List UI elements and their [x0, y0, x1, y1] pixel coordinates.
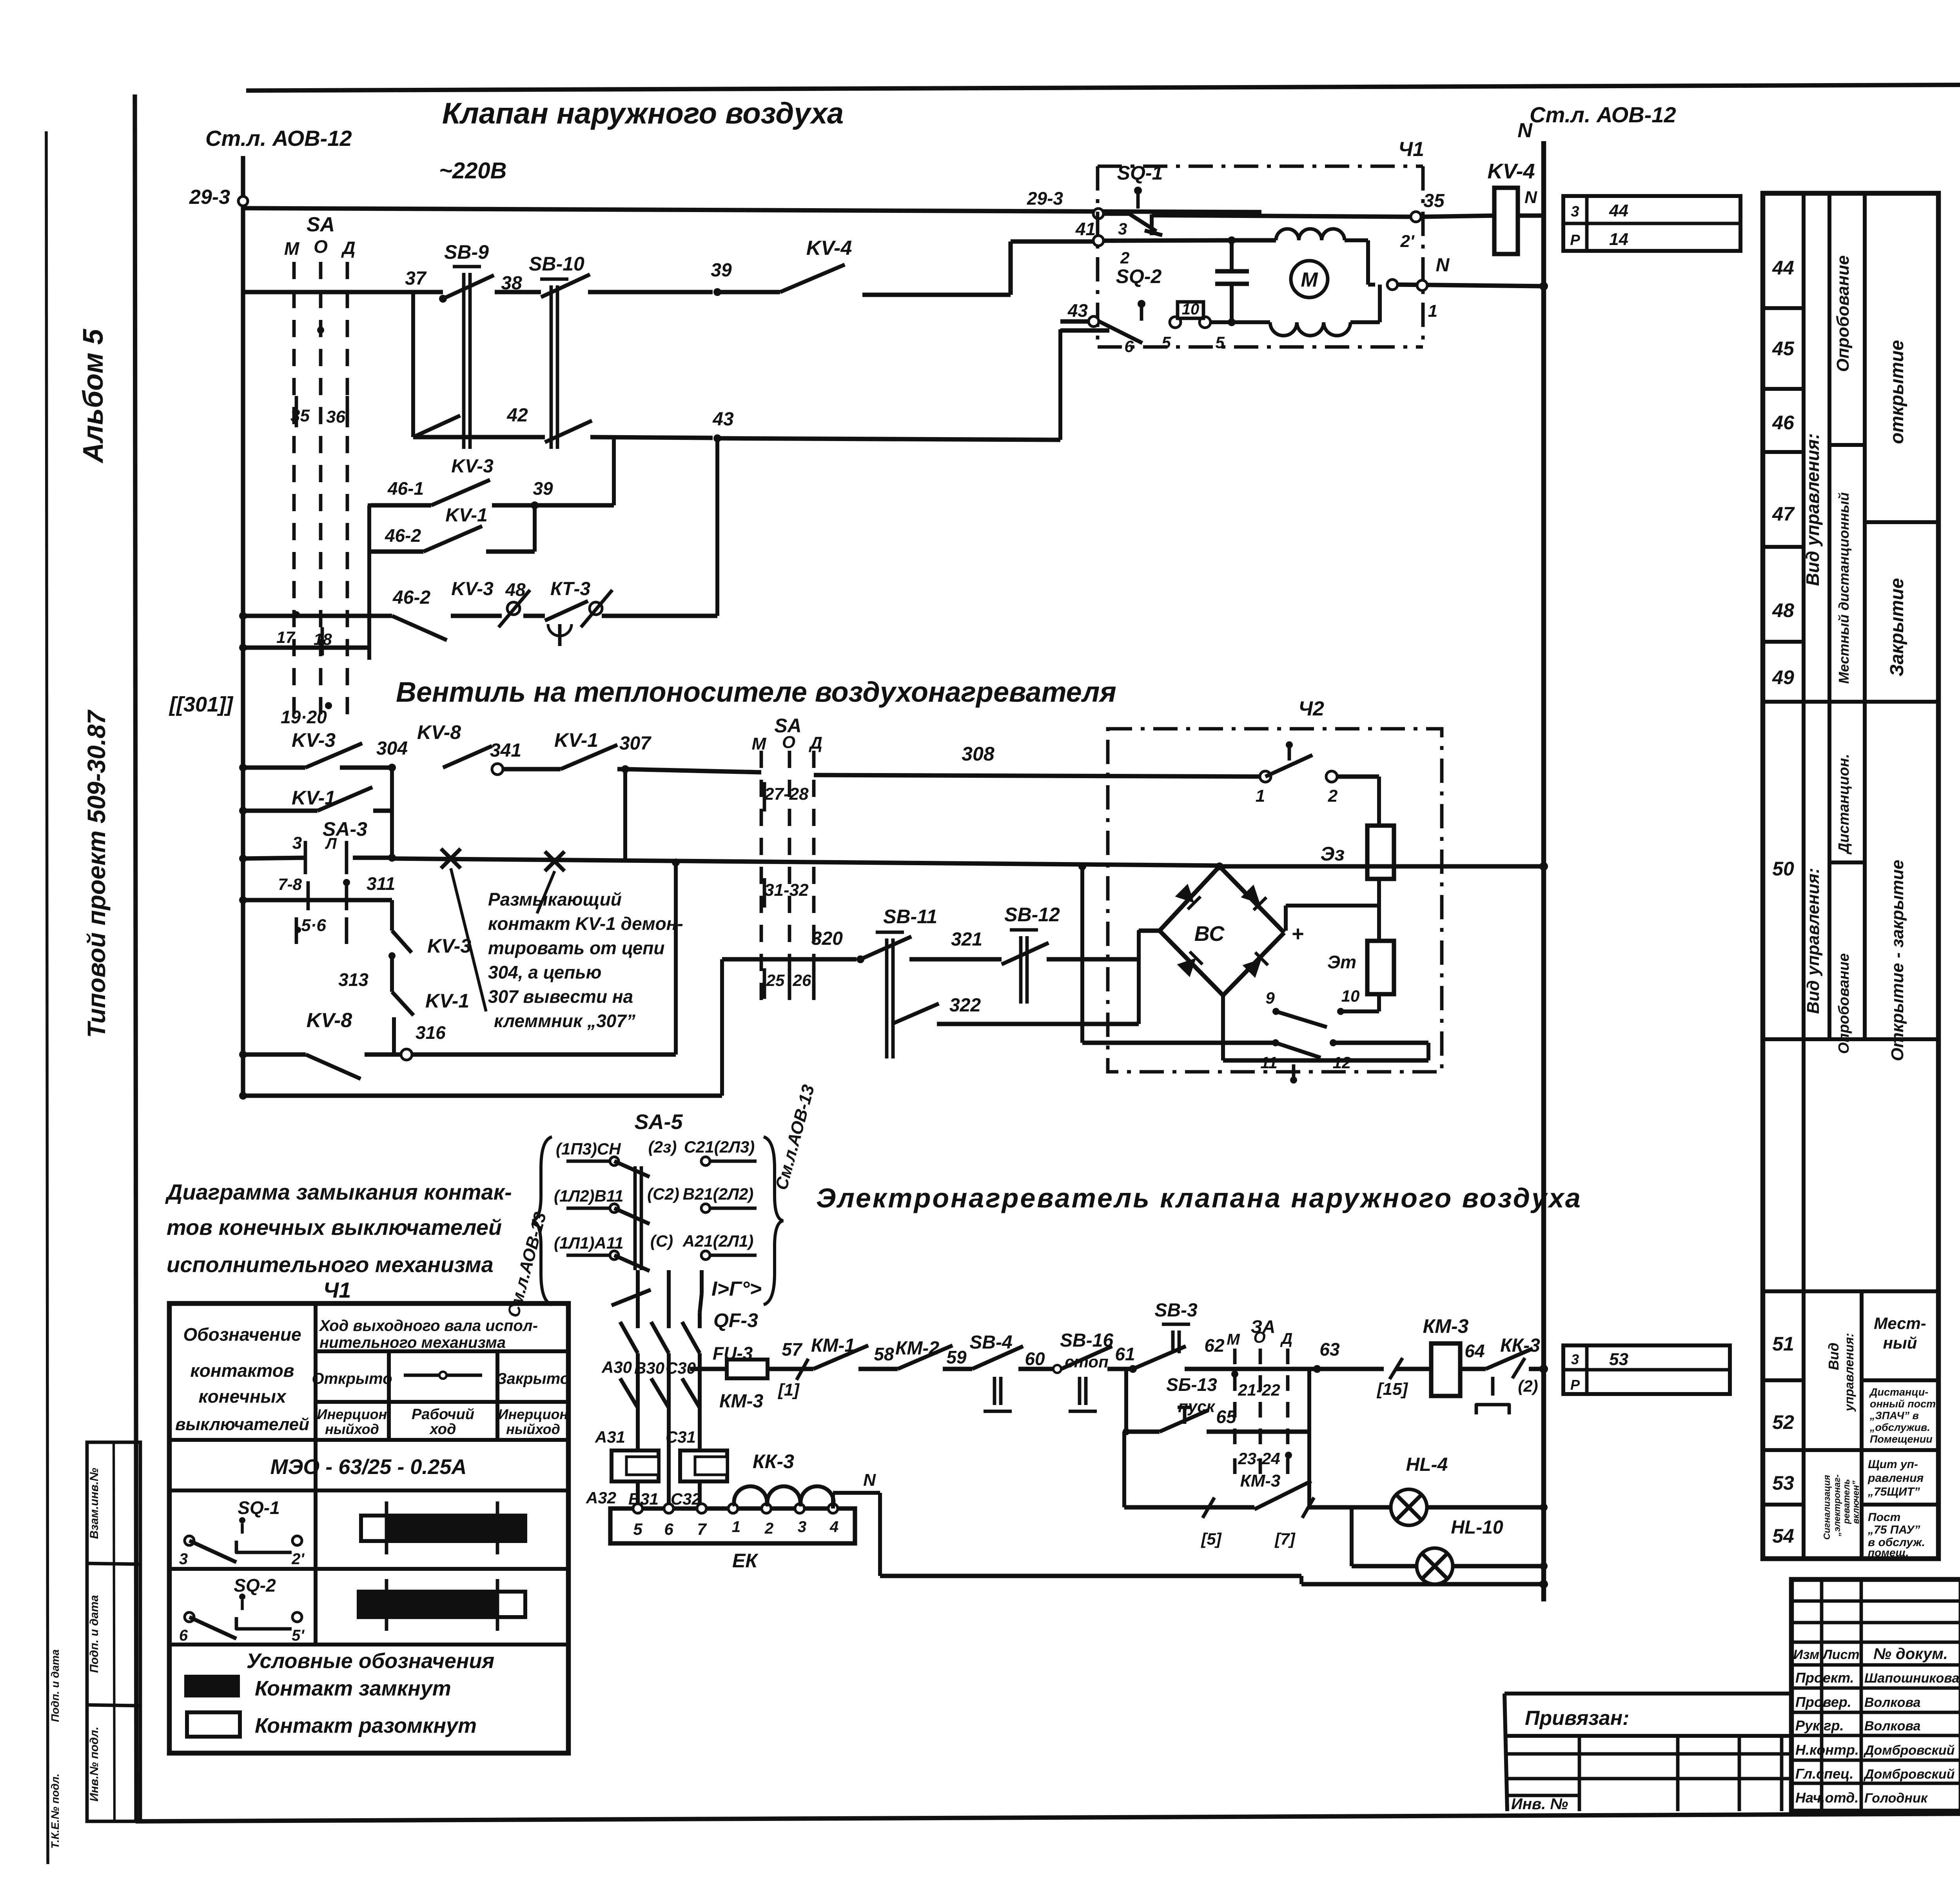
- selector switch SA dashed column lines: [292, 262, 296, 717]
- svg-text:25: 25: [766, 971, 785, 989]
- svg-text:2: 2: [1328, 786, 1338, 806]
- svg-text:321: 321: [951, 929, 982, 950]
- svg-text:313: 313: [338, 969, 368, 990]
- svg-text:А30: А30: [601, 1358, 632, 1376]
- svg-text:Нач.отд.: Нач.отд.: [1795, 1790, 1858, 1806]
- wire KV-8 316 line: [239, 1051, 247, 1058]
- svg-text:SB-12: SB-12: [1004, 904, 1060, 926]
- svg-text:3: 3: [1118, 220, 1127, 238]
- svg-text:42: 42: [506, 405, 528, 426]
- left return riser in Ch2: [1080, 866, 1084, 1043]
- svg-text:44: 44: [1609, 201, 1628, 220]
- wire 43 into Ch1: [1060, 319, 1089, 323]
- svg-text:39: 39: [533, 478, 553, 499]
- svg-text:5: 5: [1161, 333, 1171, 352]
- junction to Et: [1286, 904, 1379, 908]
- wire 17-18 stub: [243, 645, 368, 650]
- bridge bottom return: [1221, 995, 1225, 1060]
- svg-text:36: 36: [326, 407, 345, 427]
- svg-text:50: 50: [1772, 858, 1794, 880]
- svg-text:Р: Р: [1570, 1377, 1580, 1393]
- svg-text:SQ-2: SQ-2: [234, 1575, 276, 1596]
- svg-text:5: 5: [1215, 333, 1225, 352]
- svg-text:О: О: [314, 236, 328, 257]
- svg-text:1: 1: [1428, 301, 1437, 321]
- riser to bridge minus: [1137, 931, 1141, 1024]
- svg-text:Ст.л. АОВ-12: Ст.л. АОВ-12: [1530, 102, 1676, 127]
- svg-text:Пост: Пост: [1868, 1511, 1900, 1524]
- wire 309 line: [239, 855, 247, 862]
- svg-text:Сигнализация: Сигнализация: [1822, 1475, 1832, 1540]
- svg-text:открытие: открытие: [1887, 340, 1907, 444]
- svg-text:выключателей: выключателей: [175, 1415, 309, 1434]
- svg-text:Ч1: Ч1: [1398, 138, 1424, 161]
- svg-text:Провер.: Провер.: [1795, 1694, 1851, 1710]
- svg-text:322: 322: [949, 995, 981, 1016]
- riser 307 down: [623, 769, 627, 860]
- svg-text:(1Л1)А11: (1Л1)А11: [554, 1234, 623, 1252]
- svg-text:44: 44: [1772, 257, 1794, 279]
- svg-text:2': 2': [291, 1550, 305, 1568]
- svg-text:Дистанци-: Дистанци-: [1869, 1386, 1928, 1398]
- bottom return wire to N bus: [880, 1574, 1301, 1578]
- terminal box 53: [1563, 1345, 1730, 1394]
- selector SA dashed columns bottom: [1233, 1349, 1237, 1450]
- svg-text:ныйход: ныйход: [325, 1421, 379, 1437]
- svg-text:Опробование: Опробование: [1836, 953, 1852, 1054]
- wire from SQ-1 to node 35: [1152, 215, 1411, 217]
- control wire main run 57..64: [768, 1367, 813, 1371]
- terminal circle 41 on Ch1 boundary: [1093, 236, 1103, 246]
- svg-text:включен”: включен”: [1851, 1480, 1861, 1524]
- wire 321: [909, 957, 1002, 961]
- node 35 to relay coil KV-4: [1421, 216, 1494, 217]
- wire 29-3 to SQ-1 terminal 3: [243, 208, 1261, 212]
- wire 308 to actuator Ch2: [814, 775, 1265, 777]
- svg-text:53: 53: [1609, 1350, 1628, 1369]
- svg-text:Контакт замкнут: Контакт замкнут: [255, 1677, 451, 1700]
- svg-text:6: 6: [664, 1520, 673, 1538]
- svg-text:стоп: стоп: [1065, 1352, 1108, 1371]
- svg-text:Подп. и дата: Подп. и дата: [49, 1649, 61, 1722]
- svg-text:19·20: 19·20: [281, 707, 327, 727]
- svg-text:[[301]]: [[301]]: [169, 693, 234, 716]
- svg-text:ход: ход: [429, 1421, 456, 1438]
- svg-text:10: 10: [1182, 301, 1200, 318]
- svg-text:Помещении: Помещении: [1870, 1433, 1933, 1445]
- svg-text:3: 3: [798, 1518, 806, 1536]
- svg-text:[5]: [5]: [1200, 1530, 1222, 1548]
- svg-text:Гл.спец.: Гл.спец.: [1795, 1766, 1853, 1782]
- svg-text:Диаграмма замыкания контак-: Диаграмма замыкания контак-: [165, 1180, 512, 1204]
- svg-text:+: +: [1291, 922, 1304, 946]
- svg-text:Инерцион: Инерцион: [317, 1406, 387, 1422]
- section4 rows 51-54: [1763, 1378, 1804, 1382]
- svg-text:А21(2Л1): А21(2Л1): [682, 1232, 754, 1250]
- svg-text:1: 1: [1256, 786, 1265, 806]
- svg-text:КМ-3: КМ-3: [1423, 1315, 1469, 1337]
- svg-text:М: М: [1227, 1331, 1240, 1348]
- svg-text:KV-1: KV-1: [445, 505, 488, 526]
- title block left grid: [1820, 1579, 1824, 1811]
- svg-text:Закрытие: Закрытие: [1887, 578, 1907, 677]
- wire 46-1 with KV-3 contact: [371, 503, 431, 507]
- svg-text:„ЗПАЧ” в: „ЗПАЧ” в: [1869, 1410, 1919, 1421]
- svg-text:61: 61: [1115, 1344, 1135, 1364]
- svg-text:17: 17: [276, 628, 295, 646]
- wire 42 line: [411, 292, 415, 437]
- svg-text:45: 45: [1772, 338, 1795, 359]
- drawing frame left border: [135, 94, 136, 1821]
- svg-text:Щит уп-: Щит уп-: [1868, 1458, 1918, 1471]
- svg-text:Типовой проект 509-30.87: Типовой проект 509-30.87: [82, 709, 111, 1038]
- svg-text:Закрыто: Закрыто: [497, 1370, 570, 1387]
- svg-text:341: 341: [490, 740, 521, 761]
- svg-text:помещ.: помещ.: [1868, 1547, 1909, 1559]
- heater EK box: [610, 1508, 855, 1543]
- svg-text:KV-8: KV-8: [417, 721, 461, 743]
- svg-text:Л: Л: [325, 835, 337, 852]
- svg-text:Д: Д: [808, 733, 822, 753]
- svg-text:62: 62: [1204, 1335, 1225, 1356]
- wire 311 7-8: [239, 896, 247, 904]
- svg-text:Домбровский: Домбровский: [1863, 1743, 1955, 1758]
- svg-text:В21(2Л2): В21(2Л2): [683, 1185, 754, 1203]
- svg-text:КМ-3: КМ-3: [1240, 1471, 1281, 1490]
- node 43 junction: [713, 434, 721, 442]
- svg-text:КТ-3: КТ-3: [550, 579, 590, 599]
- branch SB-13 start: [1124, 1369, 1128, 1432]
- wire 320 SB-11: [722, 957, 857, 961]
- svg-text:Инв. №: Инв. №: [1511, 1795, 1568, 1813]
- svg-text:SB-9: SB-9: [444, 241, 489, 263]
- privyazan box: [1504, 1692, 1791, 1695]
- svg-text:(1П3)СН: (1П3)СН: [556, 1140, 621, 1158]
- svg-text:3: 3: [179, 1550, 188, 1568]
- svg-text:29-3: 29-3: [1027, 188, 1063, 209]
- svg-text:Д: Д: [1280, 1330, 1293, 1347]
- svg-text:Контакт разомкнут: Контакт разомкнут: [255, 1714, 477, 1737]
- svg-text:N: N: [1436, 255, 1450, 276]
- svg-text:49: 49: [1772, 666, 1794, 688]
- svg-text:46-2: 46-2: [392, 587, 430, 608]
- svg-text:KV-4: KV-4: [806, 237, 852, 260]
- svg-text:Изм: Изм: [1793, 1647, 1820, 1662]
- svg-text:Ход выходного вала испол-: Ход выходного вала испол-: [319, 1317, 538, 1334]
- diode bridge VS: [1160, 866, 1220, 931]
- thermal relay KK-3 heaters: [612, 1450, 659, 1481]
- riser 316 to 309: [674, 862, 678, 1055]
- svg-text:N: N: [863, 1470, 876, 1490]
- svg-text:HL-10: HL-10: [1451, 1517, 1503, 1538]
- svg-text:48: 48: [1772, 599, 1794, 621]
- svg-text:контактов: контактов: [190, 1360, 294, 1381]
- svg-text:№ докум.: № докум.: [1873, 1645, 1948, 1663]
- svg-text:ЕК: ЕК: [732, 1550, 759, 1572]
- svg-text:(С2): (С2): [647, 1185, 679, 1203]
- motor M: [1291, 261, 1328, 298]
- svg-text:31-32: 31-32: [764, 880, 809, 900]
- svg-text:ныйход: ныйход: [506, 1421, 560, 1437]
- svg-text:KV-3: KV-3: [427, 935, 471, 957]
- svg-text:Волкова: Волкова: [1864, 1719, 1920, 1734]
- svg-text:клеммник „307”: клеммник „307”: [494, 1011, 635, 1031]
- wire junction to capacitor: [1228, 236, 1236, 244]
- svg-text:Н.контр.: Н.контр.: [1795, 1742, 1859, 1758]
- svg-text:тировать от цепи: тировать от цепи: [488, 938, 664, 958]
- svg-text:64: 64: [1465, 1341, 1485, 1361]
- legend table: [169, 1303, 568, 1753]
- N bus vertical right: [1541, 141, 1546, 1601]
- riser 43 to SQ-2: [1058, 329, 1062, 440]
- svg-text:14: 14: [1609, 230, 1628, 249]
- selector SA dashed columns middle: [760, 751, 763, 1000]
- svg-text:ВС: ВС: [1194, 922, 1225, 946]
- svg-text:63: 63: [1319, 1339, 1340, 1360]
- svg-text:60: 60: [1025, 1349, 1045, 1369]
- svg-text:7-8: 7-8: [278, 875, 302, 893]
- svg-text:43: 43: [712, 409, 734, 430]
- svg-text:С32: С32: [671, 1490, 701, 1508]
- svg-text:5·6: 5·6: [301, 916, 326, 935]
- svg-text:307 вывести на: 307 вывести на: [488, 986, 633, 1007]
- label 19-20: [325, 702, 332, 709]
- heater element loops 1-4: [728, 1504, 738, 1513]
- svg-text:управления:: управления:: [1842, 1333, 1856, 1412]
- wire 46-2 KV-3 48 KT-3 chain: [243, 614, 392, 618]
- svg-text:SB-4: SB-4: [969, 1332, 1012, 1353]
- svg-text:МЭО - 63/25 - 0.25А: МЭО - 63/25 - 0.25А: [270, 1455, 466, 1479]
- wire from EK terminal 4 to N return: [831, 1493, 835, 1508]
- svg-text:316: 316: [416, 1022, 446, 1043]
- section1 columns: [1828, 193, 1831, 702]
- svg-text:KV-3: KV-3: [451, 579, 494, 599]
- svg-text:Условные обозначения: Условные обозначения: [247, 1649, 495, 1673]
- contact 1-2 in Ch2: [1260, 771, 1271, 782]
- svg-text:5': 5': [292, 1627, 305, 1644]
- drawing frame top border: [246, 83, 1960, 91]
- svg-text:KV-8: KV-8: [307, 1009, 352, 1032]
- svg-text:~220В: ~220В: [439, 158, 507, 183]
- wire 41 into actuator Ch1: [1011, 239, 1094, 243]
- svg-text:Т.К.Е.№ подл.: Т.К.Е.№ подл.: [49, 1774, 61, 1849]
- svg-text:М: М: [1301, 269, 1318, 291]
- svg-text:SA: SA: [307, 213, 335, 236]
- svg-text:„75 ПАУ”: „75 ПАУ”: [1867, 1523, 1920, 1536]
- svg-text:QF-3: QF-3: [713, 1309, 758, 1331]
- svg-text:37: 37: [405, 268, 427, 289]
- svg-text:43: 43: [1067, 300, 1088, 321]
- svg-text:29-3: 29-3: [189, 186, 230, 209]
- svg-text:2: 2: [1120, 249, 1129, 267]
- actuator Ch2 enclosure dash-dot: [1108, 729, 1442, 1072]
- riser to 320: [720, 959, 724, 1096]
- svg-text:Ч2: Ч2: [1298, 697, 1324, 720]
- svg-text:3: 3: [1571, 203, 1579, 220]
- callout note text: [451, 868, 486, 1011]
- svg-text:С21(2Л3): С21(2Л3): [684, 1138, 755, 1156]
- svg-text:(С): (С): [650, 1232, 673, 1250]
- svg-text:Лист: Лист: [1822, 1647, 1859, 1662]
- svg-text:М: М: [284, 238, 300, 259]
- svg-text:Инв.№ подл.: Инв.№ подл.: [88, 1726, 101, 1801]
- svg-text:2': 2': [1400, 232, 1415, 251]
- svg-text:М: М: [752, 734, 767, 753]
- svg-text:(1Л2)В11: (1Л2)В11: [554, 1187, 623, 1205]
- svg-text:KV-3: KV-3: [451, 456, 494, 477]
- svg-text:[1]: [1]: [777, 1380, 800, 1400]
- wire 46-2 with KV-1 contact: [368, 549, 423, 554]
- svg-text:SQ-1: SQ-1: [1117, 162, 1163, 184]
- svg-text:ный: ный: [1883, 1334, 1917, 1352]
- section2 columns: [1828, 702, 1831, 1039]
- leads to heater EK terminals: [636, 1481, 640, 1508]
- riser 43 down to KT-3 line: [715, 438, 719, 616]
- node 63: [1313, 1365, 1321, 1373]
- svg-text:Д: Д: [341, 238, 355, 258]
- wire N from motor to bus: [1398, 285, 1544, 286]
- svg-text:311: 311: [367, 873, 395, 894]
- wire segment 37-38-39 control line: [243, 290, 443, 294]
- left bus vertical wire L1: [241, 156, 245, 1096]
- SA-5 mechanical link bars: [633, 1166, 637, 1270]
- svg-text:Вид управления:: Вид управления:: [1804, 868, 1823, 1014]
- svg-text:4: 4: [829, 1518, 838, 1536]
- wire 322 lower: [892, 1004, 939, 1024]
- svg-text:5: 5: [633, 1520, 642, 1538]
- svg-text:SQ-1: SQ-1: [238, 1498, 279, 1518]
- three-phase leads from SA-5: [636, 1270, 640, 1312]
- svg-text:А31: А31: [595, 1428, 625, 1446]
- svg-text:(2): (2): [1518, 1377, 1538, 1395]
- svg-text:−: −: [1136, 918, 1149, 944]
- svg-text:SQ-2: SQ-2: [1116, 265, 1162, 287]
- contacts 11-12: [1272, 1039, 1279, 1046]
- svg-text:А32: А32: [586, 1489, 616, 1507]
- svg-text:Привязан:: Привязан:: [1525, 1707, 1629, 1730]
- svg-text:онный пост: онный пост: [1870, 1398, 1936, 1410]
- svg-text:нительного механизма: нительного механизма: [319, 1334, 506, 1351]
- svg-text:52: 52: [1772, 1411, 1794, 1433]
- svg-text:58: 58: [874, 1344, 894, 1364]
- svg-text:Открыто: Открыто: [312, 1370, 392, 1387]
- svg-text:21-22: 21-22: [1238, 1381, 1280, 1399]
- svg-text:конечных: конечных: [198, 1386, 287, 1407]
- svg-text:46-1: 46-1: [387, 478, 424, 499]
- svg-text:KV-1: KV-1: [554, 729, 598, 751]
- svg-text:[7]: [7]: [1274, 1530, 1296, 1548]
- svg-text:Рабочий: Рабочий: [412, 1406, 474, 1423]
- riser 304-309: [390, 768, 394, 858]
- curly brace left and See sheet AOV-13 left: [532, 1137, 552, 1305]
- svg-text:SA-5: SA-5: [634, 1110, 683, 1134]
- wire 309 over bridge to N bus: [1220, 864, 1544, 868]
- svg-text:6: 6: [1124, 337, 1134, 356]
- svg-text:„обслужив.: „обслужив.: [1869, 1421, 1930, 1433]
- svg-text:Вид управления:: Вид управления:: [1802, 433, 1823, 586]
- svg-text:Рук.гр.: Рук.гр.: [1795, 1717, 1844, 1734]
- SA contact designation 35 36: [317, 327, 324, 334]
- vertical contact chain KV-3 KV-1: [390, 900, 394, 931]
- svg-text:Размыкающий: Размыкающий: [488, 889, 622, 909]
- svg-text:65: 65: [1216, 1407, 1237, 1427]
- svg-text:304: 304: [376, 738, 408, 759]
- svg-text:„электронаг-: „электронаг-: [1832, 1474, 1842, 1537]
- svg-text:304, а цепью: 304, а цепью: [488, 962, 601, 982]
- terminal reference box 3-44 / R-14: [1563, 196, 1740, 251]
- svg-text:Ст.л. АОВ-12: Ст.л. АОВ-12: [205, 126, 352, 151]
- svg-text:6: 6: [179, 1627, 188, 1644]
- motor top winding: [1232, 238, 1276, 242]
- node 29-3 on bus: [238, 196, 248, 206]
- svg-text:N: N: [1524, 188, 1537, 207]
- terminal 5 with link 10: [1170, 317, 1181, 328]
- svg-text:Вентиль на теплоносителе воз: Вентиль на теплоносителе воздухонагреват…: [396, 677, 1116, 708]
- svg-text:53: 53: [1772, 1472, 1794, 1494]
- svg-text:Инерцион: Инерцион: [498, 1406, 568, 1422]
- svg-text:Электронагреватель клапана на: Электронагреватель клапана наружного воз…: [816, 1183, 1582, 1213]
- svg-text:Мест-: Мест-: [1874, 1314, 1926, 1332]
- riser from KV-4 contact wire up to wire 41: [862, 292, 1011, 297]
- svg-text:I>Г°>: I>Г°>: [711, 1278, 762, 1300]
- svg-text:Эз: Эз: [1321, 843, 1345, 865]
- svg-text:46: 46: [1772, 412, 1795, 434]
- svg-text:SB-10: SB-10: [529, 253, 584, 275]
- svg-text:(2з): (2з): [648, 1138, 677, 1156]
- svg-text:О: О: [1253, 1329, 1265, 1346]
- slash 15: [1390, 1358, 1403, 1379]
- wire KV-1 branch row: [239, 807, 247, 815]
- x marks on dismantle wire: [441, 849, 461, 868]
- svg-text:320: 320: [811, 928, 843, 949]
- svg-text:3: 3: [292, 833, 302, 853]
- motor bottom winding: [1232, 320, 1270, 324]
- bottom return wire middle circuit: [239, 1092, 247, 1100]
- margin stamp boxes bottom left: [87, 1442, 140, 1821]
- svg-text:реватель: реватель: [1841, 1479, 1851, 1524]
- svg-text:HL-4: HL-4: [1406, 1454, 1448, 1475]
- svg-text:Вид: Вид: [1826, 1343, 1842, 1370]
- svg-text:Проект.: Проект.: [1795, 1670, 1854, 1686]
- svg-text:47: 47: [1772, 503, 1795, 525]
- svg-text:Шапошникова: Шапошникова: [1864, 1671, 1959, 1686]
- svg-text:„75ЩИТ”: „75ЩИТ”: [1867, 1485, 1920, 1498]
- svg-text:KV-4: KV-4: [1487, 160, 1535, 183]
- svg-text:[15]: [15]: [1376, 1380, 1408, 1399]
- svg-text:Волкова: Волкова: [1864, 1695, 1920, 1710]
- svg-text:46-2: 46-2: [385, 525, 421, 546]
- svg-text:Альбом 5: Альбом 5: [78, 329, 109, 463]
- svg-text:38: 38: [501, 273, 522, 294]
- riser node63 down: [1307, 1369, 1311, 1507]
- svg-text:35: 35: [290, 406, 310, 425]
- svg-text:7: 7: [697, 1520, 707, 1538]
- svg-text:КК-3: КК-3: [753, 1450, 794, 1472]
- svg-text:Эт: Эт: [1327, 952, 1356, 972]
- svg-text:Взам.инв.№: Взам.инв.№: [88, 1468, 101, 1539]
- svg-text:51: 51: [1772, 1333, 1794, 1355]
- svg-text:Дистанцион.: Дистанцион.: [1836, 754, 1852, 855]
- svg-text:Подп. и дата: Подп. и дата: [88, 1595, 101, 1673]
- svg-text:исполнительного механизма: исполнительного механизма: [167, 1252, 494, 1277]
- svg-text:39: 39: [711, 260, 732, 281]
- actuator Ch1 enclosure dash-dot: [1098, 165, 1423, 168]
- svg-text:Местный дистанционный: Местный дистанционный: [1836, 492, 1852, 684]
- svg-text:26: 26: [793, 971, 811, 989]
- svg-text:KV-3: KV-3: [292, 729, 336, 751]
- svg-text:1: 1: [732, 1518, 740, 1536]
- svg-text:КМ-3: КМ-3: [719, 1391, 763, 1412]
